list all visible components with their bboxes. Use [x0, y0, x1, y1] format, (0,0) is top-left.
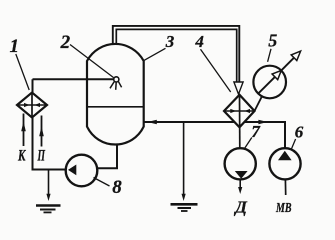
arrow: pump 6 triangle pointing up — [278, 151, 292, 160]
wire: K inlet line with up arrow — [23, 114, 25, 147]
wire: vapour pipe from vessel top (double line), inner run — [116, 29, 236, 81]
leader line to label 6 — [291, 139, 295, 150]
leader line to label 8 — [94, 178, 110, 187]
svg-text:1: 1 — [10, 36, 20, 57]
mixer 4 (diamond) — [224, 95, 255, 128]
wire: drain branch left — [48, 170, 50, 195]
leader line to label 5 — [268, 49, 271, 62]
ground: drain symbol left — [36, 204, 61, 207]
wire: connector from mixer 4 to blower 5 — [255, 96, 263, 111]
wire: horizontal diagonal of mixer 1 — [17, 104, 47, 106]
wire: horizontal diagonal of mixer 4 — [224, 110, 255, 112]
leader line to label 4 — [201, 49, 231, 92]
wire: riser from mixer 1 down to pump suction run — [33, 79, 67, 169]
wire: pump 8 discharge to vessel bottom — [97, 144, 117, 168]
wire: vertical line through mixer 4 down to pump 7 — [239, 95, 241, 149]
leader line to label 3 — [144, 48, 165, 60]
arrow: pump 8 triangle pointing left — [68, 165, 76, 176]
blower 5 (circle) — [253, 66, 286, 99]
wire: vapour pipe from vessel top (double line), outer run — [113, 26, 240, 82]
arrow: K arrowhead up — [21, 121, 26, 131]
leader line to label 1 — [16, 54, 29, 90]
svg-text:2: 2 — [60, 32, 71, 53]
wire: gas flow line inside blower 5 — [258, 77, 275, 94]
nozzle 2 spray legs — [110, 81, 122, 90]
wire: liquid level line inside vessel — [87, 106, 144, 108]
arrow: P arrowhead up — [39, 126, 44, 136]
ground: drain symbol centre — [171, 203, 198, 206]
arrow: filled arrowhead pointing right toward MB elbow — [258, 120, 267, 125]
wire: drain branch centre — [183, 122, 185, 195]
svg-text:П: П — [37, 147, 45, 164]
svg-text:6: 6 — [295, 123, 304, 142]
wire: gas discharge line from blower 5 — [281, 58, 294, 71]
arrow: outlet arrowhead down to D — [238, 187, 242, 194]
arrow: hollow arrowhead inside blower 5 — [272, 70, 281, 79]
svg-text:МВ: МВ — [275, 201, 291, 216]
wire: pump 6 outlet down — [284, 179, 286, 195]
wire: recycle line from vessel right side to elbow above vacuum pump MB — [144, 122, 285, 149]
arrow: drain left arrowhead down — [46, 194, 50, 201]
leader line to label 2 — [70, 45, 114, 78]
vessel 3 (apparatus with domed top and rounded bottom) — [87, 44, 144, 145]
arrow: filled arrowhead pointing left into vessel — [147, 120, 156, 125]
wire: pump 7 outlet down — [239, 179, 241, 188]
nozzle 2 (spray head circle) — [114, 77, 119, 82]
arrow: hollow arrowhead at discharge end — [291, 51, 300, 60]
svg-text:3: 3 — [165, 32, 175, 51]
arrow: drain centre arrowhead down — [182, 194, 186, 201]
svg-text:7: 7 — [251, 122, 261, 141]
arrow: hollow arrowhead at pipe end into mixer 4 — [234, 82, 243, 94]
svg-text:4: 4 — [194, 32, 204, 51]
wire: P inlet line with up arrow — [41, 116, 43, 147]
arrow: mixer 4 right inward arrowhead — [245, 109, 251, 113]
arrow: pump 7 triangle pointing down — [235, 171, 248, 179]
svg-text:8: 8 — [112, 177, 122, 198]
svg-text:К: К — [17, 147, 26, 164]
mixer 1 (diamond) — [17, 93, 47, 118]
arrow: mixer 4 left inward arrowhead — [230, 109, 236, 113]
svg-text:5: 5 — [268, 31, 277, 51]
vacuum pump 6 (circle) — [269, 148, 300, 179]
pump 7 (circle) — [225, 148, 256, 179]
leader line to label 7 — [245, 138, 252, 149]
arrow: mixer 1 right inward arrowhead — [35, 103, 41, 107]
arrow: mixer 1 left inward arrowhead — [24, 103, 30, 107]
pump 8 (circle) — [66, 155, 98, 187]
svg-text:Д: Д — [233, 198, 248, 217]
wire: feed line from mixer 1 to spray nozzle 2 — [33, 78, 114, 80]
wire: vertical line through mixer 1 — [31, 93, 33, 118]
